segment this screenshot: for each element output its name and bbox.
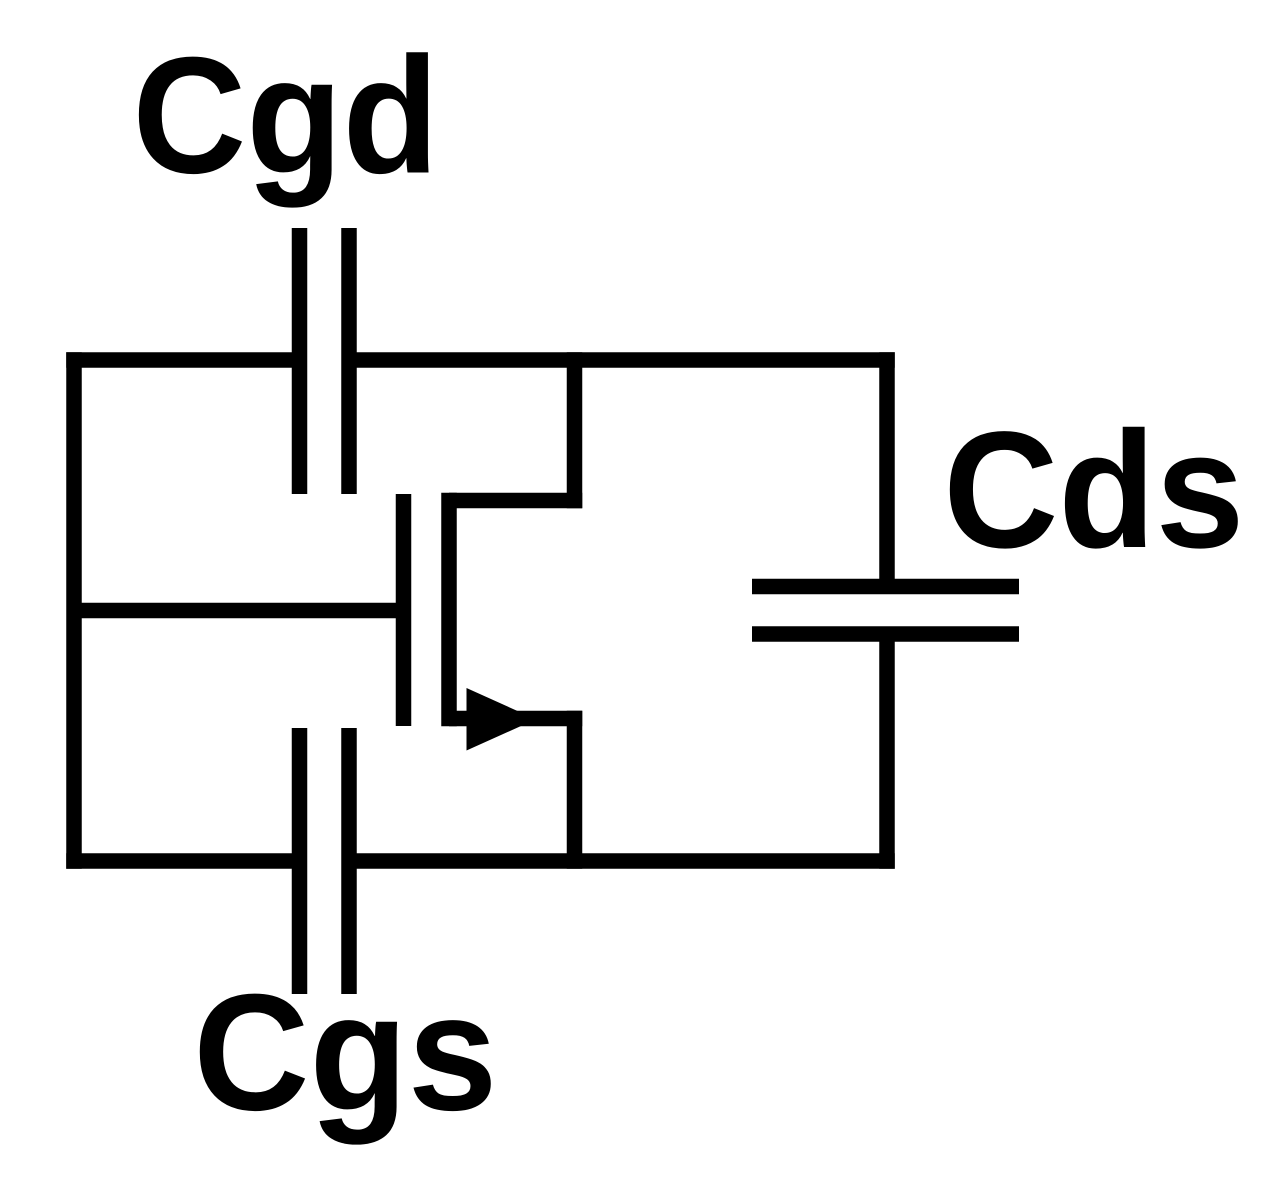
svg-text:Cgd: Cgd	[132, 23, 439, 209]
wire: source vertical (down to bottom rail)	[567, 711, 583, 869]
capacitor Cgd left plate	[292, 228, 308, 494]
wire: right rail upper (drain net down to Cds top plate)	[879, 352, 895, 586]
transistor Q1 gate bar	[396, 494, 412, 726]
wire: drain vertical (up to top rail)	[567, 352, 583, 508]
capacitor Cgs right plate	[341, 728, 357, 994]
svg-text:Cgs: Cgs	[193, 959, 497, 1145]
capacitor Cds top plate	[752, 579, 1019, 595]
capacitor Cgs left plate	[292, 728, 308, 994]
transistor Q1 source arrow	[467, 688, 537, 751]
transistor Q1 source lead (horizontal)	[449, 711, 582, 727]
transistor Q1 drain lead (horizontal)	[449, 493, 582, 509]
wire: top rail left segment (gate net to Cgd left plate)	[66, 352, 299, 368]
wire: right rail lower (Cds bottom plate to source net)	[879, 634, 895, 869]
wire: bottom rail left segment (gate net to Cgs left plate)	[66, 853, 299, 869]
capacitor Cgd right plate	[341, 228, 357, 494]
svg-text:Cds: Cds	[943, 398, 1244, 583]
capacitor Cds bottom plate	[752, 626, 1019, 642]
wire: bottom rail right segment (source net)	[349, 853, 895, 869]
wire: gate lead (left rail to gate bar)	[74, 603, 404, 619]
transistor Q1 channel bar	[441, 493, 457, 727]
wire: top rail right segment (Cgd right plate to drain node)	[349, 352, 895, 368]
wire: left rail (gate net vertical)	[66, 352, 82, 869]
